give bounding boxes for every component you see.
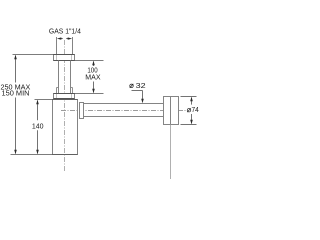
dimension o74 extensions: [181, 97, 197, 125]
label o 32 : diameter symbol: [130, 84, 134, 88]
svg-text:74: 74: [192, 105, 199, 114]
svg-text:32: 32: [136, 81, 146, 90]
centerline horizontal (outlet axis): [61, 110, 186, 112]
dimension line o74: [191, 98, 193, 124]
thread tube (inlet): [57, 37, 73, 55]
dimension bottom extension line (body bottom, shared 250/140): [11, 154, 53, 156]
wall pipe line below flange: [170, 125, 172, 180]
label o74 : diameter symbol: [187, 108, 191, 112]
dimension line 250MAX/150MIN: [15, 56, 17, 154]
svg-text:150 MIN: 150 MIN: [2, 89, 30, 98]
dimension 140 extension top: [35, 99, 53, 101]
dimension line 100MAX: [93, 62, 95, 93]
nut top darker edges: [54, 55, 75, 61]
nut bottom darker edges: [54, 94, 75, 99]
dimension 100MAX extensions: [75, 61, 104, 94]
outlet fitting (nut on body side): [80, 103, 84, 119]
outer sleeve (telescopic inlet tube of trap): [57, 88, 73, 94]
dimension line 140: [37, 101, 39, 154]
svg-text:GAS 1"1/4: GAS 1"1/4: [49, 26, 81, 35]
leader o32: [132, 91, 143, 100]
body top/bottom darker edges: [53, 100, 78, 155]
nut top (slip nut): [54, 55, 75, 61]
middle tube (tailpipe): [59, 61, 71, 94]
centerline vertical (trap axis): [64, 40, 66, 172]
svg-text:MAX: MAX: [85, 73, 100, 82]
svg-text:140: 140: [32, 121, 44, 130]
nut bottom (slip nut on body): [54, 94, 75, 99]
dimension 250MAX/150MIN extension top: [13, 54, 54, 56]
thread dimension arrows (GAS): [57, 37, 72, 39]
trap body (bottle): [53, 100, 78, 155]
outlet pipe: [84, 104, 164, 117]
wall flange (rosette): [164, 97, 179, 125]
